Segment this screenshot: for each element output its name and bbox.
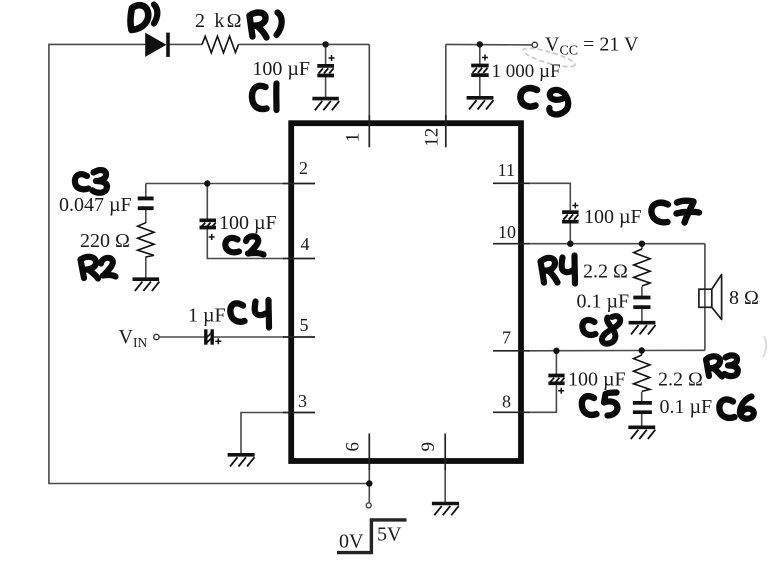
handwritten designator R3 [706,355,738,376]
wire C5 upper lead [555,351,557,375]
pin 8 stub [493,411,530,413]
capacitor C6 [633,403,652,412]
handwritten designator C9 [520,88,568,114]
node junction C1/top rail [322,41,328,47]
pin 2 stub [283,183,315,185]
handwritten designator R4 [541,256,576,284]
svg-text:3: 3 [298,391,307,411]
pin 7 stub [493,350,530,352]
speaker LS1 [699,275,722,320]
capacitor C4 (polarized, horizontal) [206,329,222,344]
capacitor C2 (polarized) [200,220,217,240]
wire Vcc run [446,43,532,46]
wire pin 11 run [528,183,570,211]
svg-text:0.1 µF: 0.1 µF [577,291,630,313]
op-amp IC U1 body [291,123,521,461]
wire C9 upper lead [479,44,481,64]
terminal pin 6 output [366,503,371,508]
svg-text:9: 9 [418,442,439,452]
svg-text:6: 6 [343,442,364,452]
pin 6 stub [368,434,370,471]
capacitor C7 (polarized) [562,203,579,222]
wire pin 3 run to ground [241,413,284,454]
handwritten designator C7 [651,201,699,223]
capacitor C1 (polarized) [317,55,334,76]
pin 5 stub [283,336,315,338]
wire R2 to ground [145,257,147,279]
wire pin 6 drop to node [368,469,370,503]
handwritten designator C3 [75,170,107,193]
capacitor C5 (polarized) [548,376,564,394]
ground (C9) [467,98,494,110]
wire left vertical rail [48,44,50,484]
wire pin 7 run [528,349,705,352]
svg-text:VCC = 21 V: VCC = 21 V [545,34,639,59]
wire pin 2 run [146,183,284,185]
svg-text:0V: 0V [339,531,364,553]
svg-text:2: 2 [299,158,308,178]
handwritten designator C6 [719,397,753,419]
faint smudge right of speaker [763,336,766,357]
ground (pin 9) [432,504,459,516]
resistor R2 zigzag [138,223,154,257]
svg-text:2 kΩ: 2 kΩ [195,10,244,32]
wire C2 lower lead and pin 4 run [207,229,284,259]
capacitor C9 (polarized) [471,55,489,76]
node junction C7/pin 10 rail [567,241,573,247]
node junction R4/pin 10 rail [639,241,645,247]
pin 12 stub [445,115,447,147]
terminal Vcc [532,42,537,47]
wire C6 to ground [641,414,643,427]
step waveform symbol 0V/5V [337,520,407,553]
svg-text:100 µF: 100 µF [568,369,626,391]
node junction C2/pin 2 rail [204,180,210,186]
wire Vin to C4 [159,336,204,338]
wire C4 to pin 5 [214,336,284,338]
wire D1 cathode to R1 [170,43,203,45]
resistor R4 zigzag [634,249,650,286]
svg-text:4: 4 [301,234,310,254]
svg-text:8: 8 [502,392,511,412]
svg-text:2.2 Ω: 2.2 Ω [658,369,703,391]
pin 9 stub [444,434,446,471]
handwritten designator C1 [252,84,277,111]
handwritten designator R2 [81,257,116,279]
handwritten designator C5 [582,393,618,416]
capacitor C3 [138,198,154,208]
wire R3 top lead [641,351,643,356]
wire C1 lower lead to ground [325,77,327,98]
svg-text:1 µF: 1 µF [188,305,226,327]
handwritten designator C2 [225,236,263,254]
wire pin 9 drop to ground [444,469,446,502]
node junction R3/pin 7 rail [639,347,645,353]
pencil smudge near Vcc [522,45,577,71]
pin 3 stub [283,412,315,414]
svg-text:220 Ω: 220 Ω [80,230,130,252]
svg-text:100 µF: 100 µF [252,58,310,80]
wire C5 lower lead and pin 8 run [528,385,556,412]
node junction C9/Vcc rail [477,41,483,47]
handwritten designator C4 [230,300,269,328]
svg-text:5V: 5V [377,524,402,546]
wire C2 upper lead [206,184,208,219]
svg-text:10: 10 [498,222,516,242]
wire C7 lower lead [569,223,571,244]
svg-text:5: 5 [300,315,309,335]
capacitor C8 [633,298,650,308]
svg-text:100 µF: 100 µF [219,212,277,234]
wire C9 lower lead to ground [479,77,481,98]
handwritten designator R1 [250,13,282,38]
diode D1 [145,33,170,57]
svg-text:1: 1 [343,133,364,143]
ground (C1) [312,99,339,111]
svg-text:11: 11 [498,160,515,180]
wire C3 to R2 [145,210,147,223]
svg-text:0.047 µF: 0.047 µF [59,194,132,216]
svg-text:8 Ω: 8 Ω [729,287,759,309]
ground (R2) [133,279,160,291]
wire R4 to C8 [641,287,643,297]
pin 10 stub [493,243,530,245]
node junction C5/pin 7 rail [553,348,559,354]
terminal Vin [154,334,159,339]
wire C3 top lead [145,184,147,198]
resistor R3 zigzag [634,355,650,391]
svg-text:12: 12 [422,128,443,147]
handwritten designator C8 [582,316,620,343]
svg-text:0.1 µF: 0.1 µF [660,396,713,418]
node junction pin 6/bottom rail [366,480,372,486]
resistor R1 zigzag [202,36,239,53]
wire pin 1 drop [368,44,370,121]
handwritten designator D1 [131,5,158,31]
ground (C8) [629,323,656,335]
wire C8 to ground [641,309,643,322]
wire R4 top lead [641,244,643,249]
wire R3 to C6 [641,392,643,402]
wire pin 12 riser [445,44,447,121]
wire bottom rail [48,483,369,485]
svg-text:7: 7 [502,328,511,348]
pin 4 stub [283,258,315,260]
svg-text:2.2 Ω: 2.2 Ω [583,261,628,283]
svg-text:100 µF: 100 µF [584,206,642,228]
svg-text:1 000 µF: 1 000 µF [492,61,561,82]
wire top rail left segment (to D1 anode) [49,43,146,45]
wire speaker drop [704,244,706,351]
pin 11 stub [493,182,530,184]
wire C1 upper lead [325,44,327,65]
wire pin 10 run [528,243,705,245]
pin 1 stub [368,115,370,147]
wire R1 to pin-1 corner [239,43,370,45]
ground (pin 3) [228,455,255,467]
ground (C6) [628,427,655,439]
